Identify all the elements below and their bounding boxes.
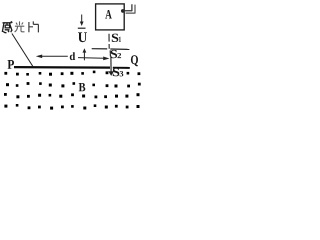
beam arrow into field region — [110, 57, 112, 73]
label S1 — [112, 34, 119, 42]
U upper arrow (down) — [81, 15, 83, 24]
photosensitive film right segment — [113, 67, 130, 69]
U lower arrow (up) — [83, 51, 85, 60]
wire elbow 1 — [123, 4, 132, 11]
plate S2 right segment — [110, 48, 129, 50]
beam dashed line segment 3 — [109, 50, 111, 56]
hanzi 光 — [15, 21, 25, 32]
d dimension right arrow — [78, 57, 104, 60]
label S3 subscript 3 — [120, 71, 124, 76]
photosensitive film left segment (P to slit S3) — [14, 66, 110, 69]
label S1 subscript 1 — [119, 37, 121, 42]
label Q — [131, 55, 138, 66]
label P — [8, 60, 15, 69]
plate S2 left segment — [92, 48, 108, 50]
wire elbow 2 — [126, 5, 135, 14]
label U — [78, 32, 87, 42]
tick under U arrow — [78, 27, 86, 29]
box A (accelerator box) — [96, 4, 125, 30]
label S2 — [111, 50, 118, 58]
hanzi 感 — [2, 21, 12, 32]
d dimension left arrow — [39, 55, 68, 57]
label d — [70, 52, 75, 60]
beam dashed line segment 2 — [108, 44, 110, 49]
terminal dot on box corner — [121, 9, 125, 13]
beam dashed line segment 1 — [108, 34, 110, 42]
hanzi 片 — [29, 21, 39, 32]
magnetic field B dots (field out of page) — [4, 71, 141, 110]
label S2 subscript 2 — [118, 53, 122, 58]
leader line from film label — [12, 34, 33, 67]
label B — [79, 83, 86, 91]
label A — [105, 10, 112, 19]
label S3 — [113, 68, 120, 76]
